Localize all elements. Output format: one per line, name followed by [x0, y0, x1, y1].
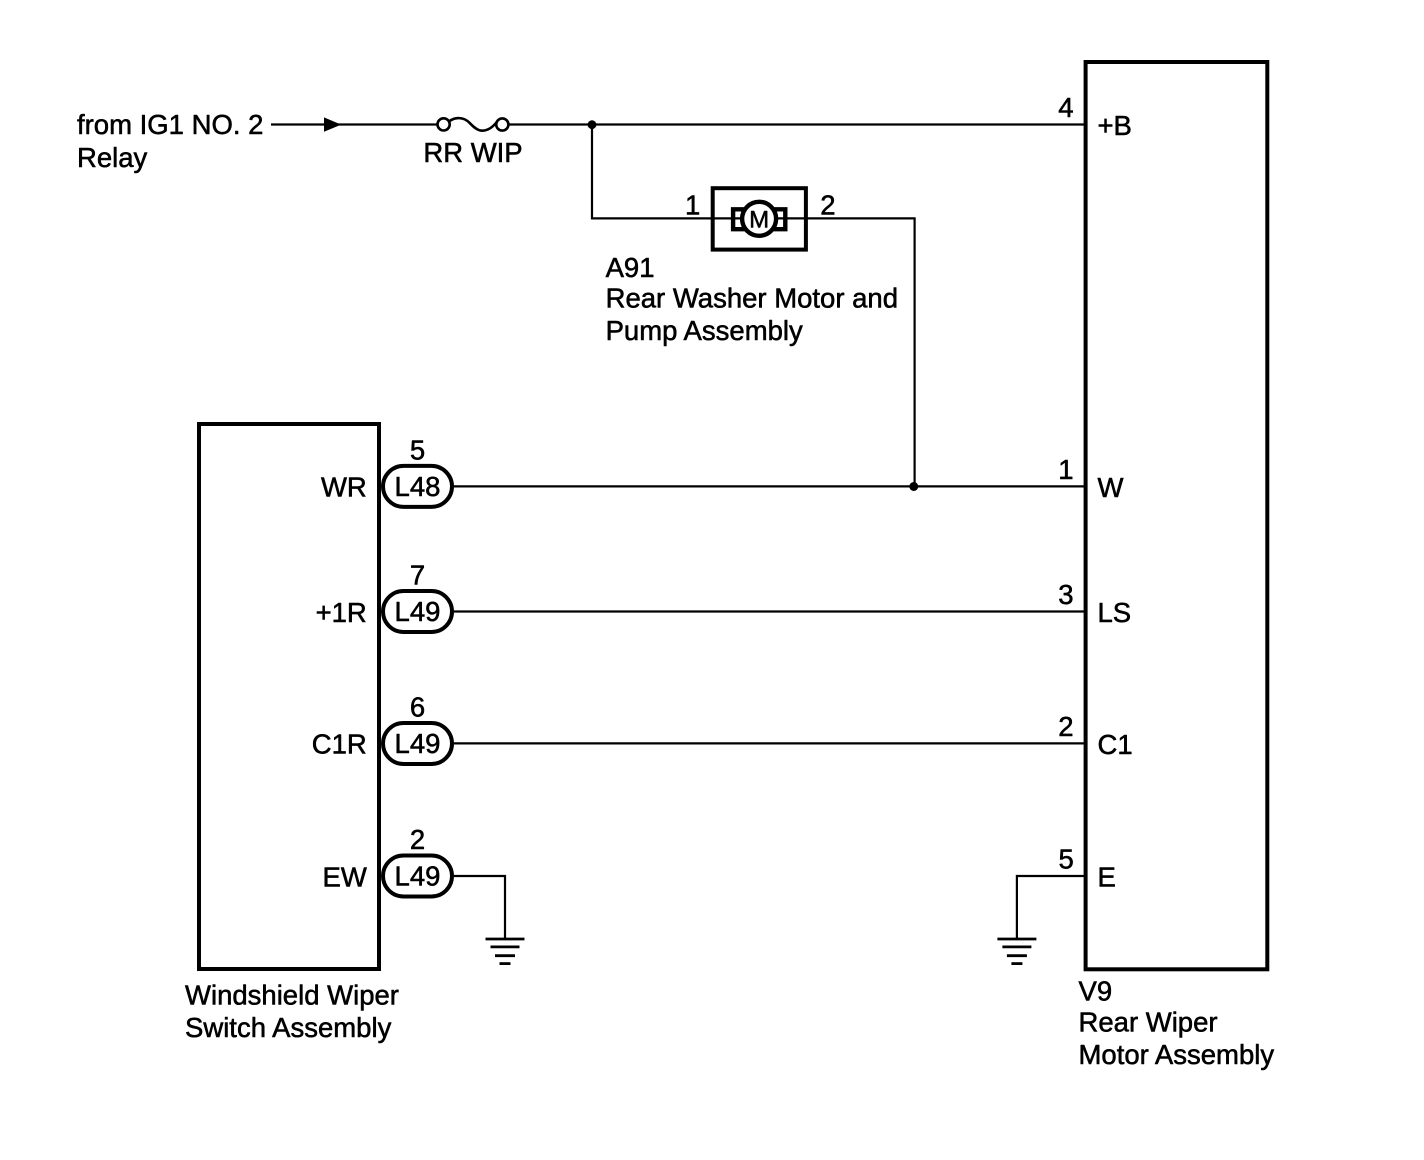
- svg-text:EW: EW: [322, 861, 366, 892]
- washer motor A91: [685, 188, 835, 249]
- svg-text:4: 4: [1058, 92, 1073, 123]
- svg-text:RR WIP: RR WIP: [423, 137, 522, 168]
- ground (right): [997, 939, 1036, 964]
- ground (left): [486, 939, 525, 964]
- svg-text:Windshield Wiper: Windshield Wiper: [185, 980, 399, 1011]
- connector pill L49 (+1R pin 7): [316, 559, 452, 632]
- wire: WR to W: [454, 485, 1085, 487]
- motor outer box: [713, 188, 806, 249]
- right box: rear wiper motor assembly: [1086, 62, 1268, 969]
- svg-text:1: 1: [685, 190, 700, 221]
- arrow: power feed direction: [324, 117, 341, 131]
- svg-text:WR: WR: [321, 472, 367, 503]
- motor brush right: [772, 209, 785, 229]
- wire: motor pin 2 down to W wire: [808, 218, 915, 486]
- svg-text:L49: L49: [395, 596, 441, 627]
- svg-text:2: 2: [1058, 711, 1073, 742]
- svg-text:1: 1: [1058, 454, 1073, 485]
- svg-text:Pump Assembly: Pump Assembly: [606, 315, 803, 346]
- wire: +1R to LS: [454, 610, 1085, 612]
- svg-text:L49: L49: [395, 861, 441, 892]
- wire: E to right ground: [1017, 876, 1085, 939]
- wire: junction down and to washer motor pin 1: [592, 125, 711, 219]
- svg-text:Switch Assembly: Switch Assembly: [185, 1012, 392, 1043]
- svg-text:+1R: +1R: [316, 597, 367, 628]
- connector pill L48 (WR pin 5): [321, 434, 452, 507]
- svg-text:L48: L48: [395, 471, 441, 502]
- junction dot on W wire: [909, 482, 918, 491]
- svg-text:E: E: [1098, 861, 1116, 892]
- svg-text:5: 5: [410, 434, 425, 465]
- svg-text:A91: A91: [606, 252, 655, 283]
- wire: fuse to +B pin of right box: [508, 123, 1085, 125]
- svg-text:Rear Washer Motor and: Rear Washer Motor and: [606, 283, 898, 314]
- svg-text:3: 3: [1058, 579, 1073, 610]
- svg-text:Rear Wiper: Rear Wiper: [1079, 1007, 1218, 1038]
- svg-text:M: M: [749, 207, 769, 234]
- wire: C1R to C1: [454, 742, 1085, 744]
- connector pill L49 (C1R pin 6): [312, 692, 452, 765]
- svg-text:C1: C1: [1098, 729, 1133, 760]
- svg-text:V9: V9: [1079, 975, 1113, 1006]
- wire through motor: [711, 217, 808, 219]
- svg-text:LS: LS: [1098, 597, 1132, 628]
- fuse RR WIP: [438, 118, 509, 131]
- svg-text:from IG1 NO. 2: from IG1 NO. 2: [77, 109, 263, 140]
- svg-text:Motor Assembly: Motor Assembly: [1079, 1039, 1275, 1070]
- svg-text:+B: +B: [1098, 110, 1132, 141]
- svg-text:L49: L49: [395, 728, 441, 759]
- svg-text:W: W: [1098, 472, 1124, 503]
- left box: windshield wiper switch assembly: [199, 424, 379, 969]
- svg-text:C1R: C1R: [312, 729, 367, 760]
- svg-text:5: 5: [1059, 844, 1074, 875]
- svg-text:2: 2: [820, 190, 835, 221]
- motor brush left: [733, 209, 746, 229]
- connector pill L49 (EW pin 2): [322, 824, 452, 897]
- svg-text:2: 2: [410, 824, 425, 855]
- junction dot at fuse output: [588, 120, 597, 129]
- svg-text:Relay: Relay: [77, 142, 148, 173]
- svg-text:7: 7: [410, 559, 425, 590]
- motor circle: [742, 202, 776, 236]
- wire: feed from relay to fuse: [271, 123, 438, 125]
- wire: EW to left ground: [454, 876, 505, 939]
- svg-text:6: 6: [410, 692, 425, 723]
